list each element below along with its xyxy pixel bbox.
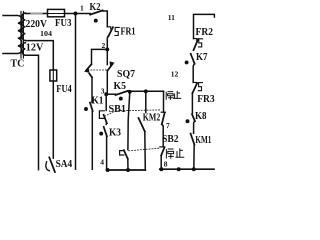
- wire stop-link branch from top bus: [128, 90, 132, 94]
- pushbutton SB2 contact: [160, 146, 165, 148]
- svg-text:FR2: FR2: [196, 27, 214, 38]
- wire pole to bus 4: [127, 159, 129, 170]
- svg-text:K5: K5: [114, 81, 127, 92]
- wire KM1 to bus 8: [193, 145, 195, 170]
- thermal contact FR2: [194, 39, 197, 41]
- label 2: [102, 41, 106, 50]
- svg-text:1: 1: [80, 4, 84, 13]
- label SQ7: [117, 69, 135, 80]
- label FU4: [56, 84, 72, 95]
- label 104: [40, 29, 52, 38]
- label SB2: [162, 134, 179, 145]
- transformer TC secondary 12V winding: [22, 43, 25, 55]
- wire to node 7 and SB2: [162, 124, 163, 146]
- label 7: [166, 121, 170, 130]
- label FR1: [121, 26, 136, 37]
- switch K2 blade: [90, 10, 102, 14]
- label FU3: [55, 18, 72, 29]
- label stop (lower) 停: [166, 149, 173, 158]
- switch SA4 blade: [49, 157, 55, 172]
- mechanical link dashes SB1 to stop contact: [105, 110, 161, 116]
- fuse FU4: [50, 70, 57, 81]
- contact K1: [90, 103, 93, 111]
- thermal contact FR1: [107, 27, 110, 29]
- svg-text:8: 8: [164, 160, 168, 169]
- svg-text:K1: K1: [92, 95, 104, 106]
- label 4: [100, 158, 104, 167]
- wire branch SB1/K3 from node 3: [105, 94, 107, 110]
- wire K3 down to node 4 bus: [106, 136, 108, 170]
- label 12: [171, 69, 179, 78]
- wire between SB1 and K3: [105, 123, 107, 124]
- pushbutton SB1 cap: [99, 111, 104, 119]
- wire FR3 to K8: [191, 93, 193, 114]
- wire 11 corner: [194, 14, 215, 38]
- svg-text:FU4: FU4: [56, 84, 72, 95]
- label SA4: [56, 159, 73, 170]
- label FR2: [196, 27, 214, 38]
- label FR3: [197, 94, 215, 105]
- wire 12V terminal down: [25, 55, 38, 169]
- thermal contact FR3: [193, 82, 196, 84]
- wire KM2 to bus 4: [144, 131, 147, 170]
- svg-text:4: 4: [100, 158, 104, 167]
- contact KM1: [191, 134, 195, 145]
- svg-text:TC: TC: [11, 59, 25, 70]
- svg-text:3: 3: [101, 87, 105, 96]
- pushbutton SB1 blade: [104, 115, 107, 123]
- svg-text:11: 11: [168, 13, 175, 22]
- label stop (lower) 止: [176, 149, 184, 157]
- wire K8 to KM1: [193, 121, 196, 133]
- switch SA4 hook: [46, 162, 50, 171]
- label KM1: [195, 135, 211, 146]
- svg-text:104: 104: [40, 29, 52, 38]
- node junction dot at 1: [74, 12, 78, 16]
- switch K5 blade: [106, 93, 115, 95]
- hand-drawn CJK 止 (upper): [174, 91, 181, 98]
- label K7: [196, 52, 208, 63]
- node 2 junction dot: [105, 47, 109, 51]
- hand-drawn CJK 停: [166, 92, 173, 100]
- svg-text:FR3: FR3: [197, 94, 215, 105]
- label SB1: [109, 104, 127, 115]
- mechanical link dashes SQ7: [88, 69, 106, 71]
- label TC: [11, 59, 25, 70]
- contact K3: [104, 127, 107, 136]
- wire FU3 to K2: [65, 13, 91, 15]
- svg-text:FR1: FR1: [121, 26, 136, 37]
- stop button upper contact: [161, 111, 165, 113]
- transformer TC secondary 220V winding: [22, 13, 25, 41]
- fuse FU3: [48, 9, 65, 16]
- svg-text:KM1: KM1: [195, 135, 211, 146]
- contact K8: [192, 114, 195, 121]
- wire FR1 to node 2: [106, 36, 109, 49]
- wire K1 down to end: [91, 111, 93, 169]
- svg-text:KM2: KM2: [143, 112, 161, 123]
- label K3: [109, 128, 121, 139]
- wire K2 to main column: [103, 11, 108, 27]
- label KM2: [143, 112, 161, 123]
- svg-text:FU3: FU3: [55, 18, 72, 29]
- wire left pole down to K1: [91, 77, 93, 102]
- label K2: [90, 2, 101, 13]
- label 1: [80, 4, 84, 13]
- label 3: [101, 87, 105, 96]
- mechanical link dashes to SB2: [129, 148, 159, 151]
- wire top bus after K5: [128, 90, 164, 92]
- wire 0V rail down from node 1: [75, 14, 77, 170]
- label 12V: [26, 42, 44, 53]
- label 8: [164, 160, 168, 169]
- label K1: [92, 95, 104, 106]
- wire SB2 to bus 8: [160, 155, 162, 169]
- limit switch SQ7 left pole: [86, 64, 91, 70]
- svg-text:SB2: SB2: [162, 134, 179, 145]
- stop button second pole blade: [124, 150, 128, 159]
- svg-text:SQ7: SQ7: [117, 69, 135, 80]
- limit switch SQ7 right pole: [106, 49, 108, 64]
- label 11: [168, 13, 175, 22]
- svg-text:12: 12: [171, 69, 179, 78]
- wire FU4 down to SA4: [52, 81, 54, 158]
- svg-text:12V: 12V: [26, 42, 44, 53]
- node bus 4: [107, 169, 146, 171]
- svg-text:SA4: SA4: [56, 159, 73, 170]
- label K5: [114, 81, 127, 92]
- node 3 junction dot: [104, 92, 108, 96]
- wire K7 to FR3: [193, 64, 194, 83]
- transformer TC core: [21, 12, 23, 59]
- label 220V: [26, 19, 48, 30]
- contact KM2 blade: [139, 118, 145, 131]
- contactor KM2 branch wire: [144, 89, 148, 93]
- node bus 8: [160, 168, 214, 170]
- wire 220V tap to FU4: [25, 41, 53, 70]
- stop button second pole cap: [120, 151, 124, 155]
- svg-text:K3: K3: [109, 128, 121, 139]
- wire node 2 to left pole: [92, 49, 108, 64]
- svg-text:K7: K7: [196, 52, 208, 63]
- svg-text:K8: K8: [195, 111, 207, 122]
- scan artifact blue tint on wire: [31, 13, 42, 15]
- wire top bus corner down to stop button: [163, 91, 165, 112]
- contact K7: [191, 54, 195, 64]
- svg-text:K2: K2: [90, 2, 101, 13]
- switch K2 pivot dot: [94, 19, 98, 23]
- label K8: [195, 111, 207, 122]
- svg-text:7: 7: [166, 121, 170, 130]
- wire 220V top terminal to FU3: [25, 13, 47, 15]
- transformer TC primary winding: [3, 16, 22, 54]
